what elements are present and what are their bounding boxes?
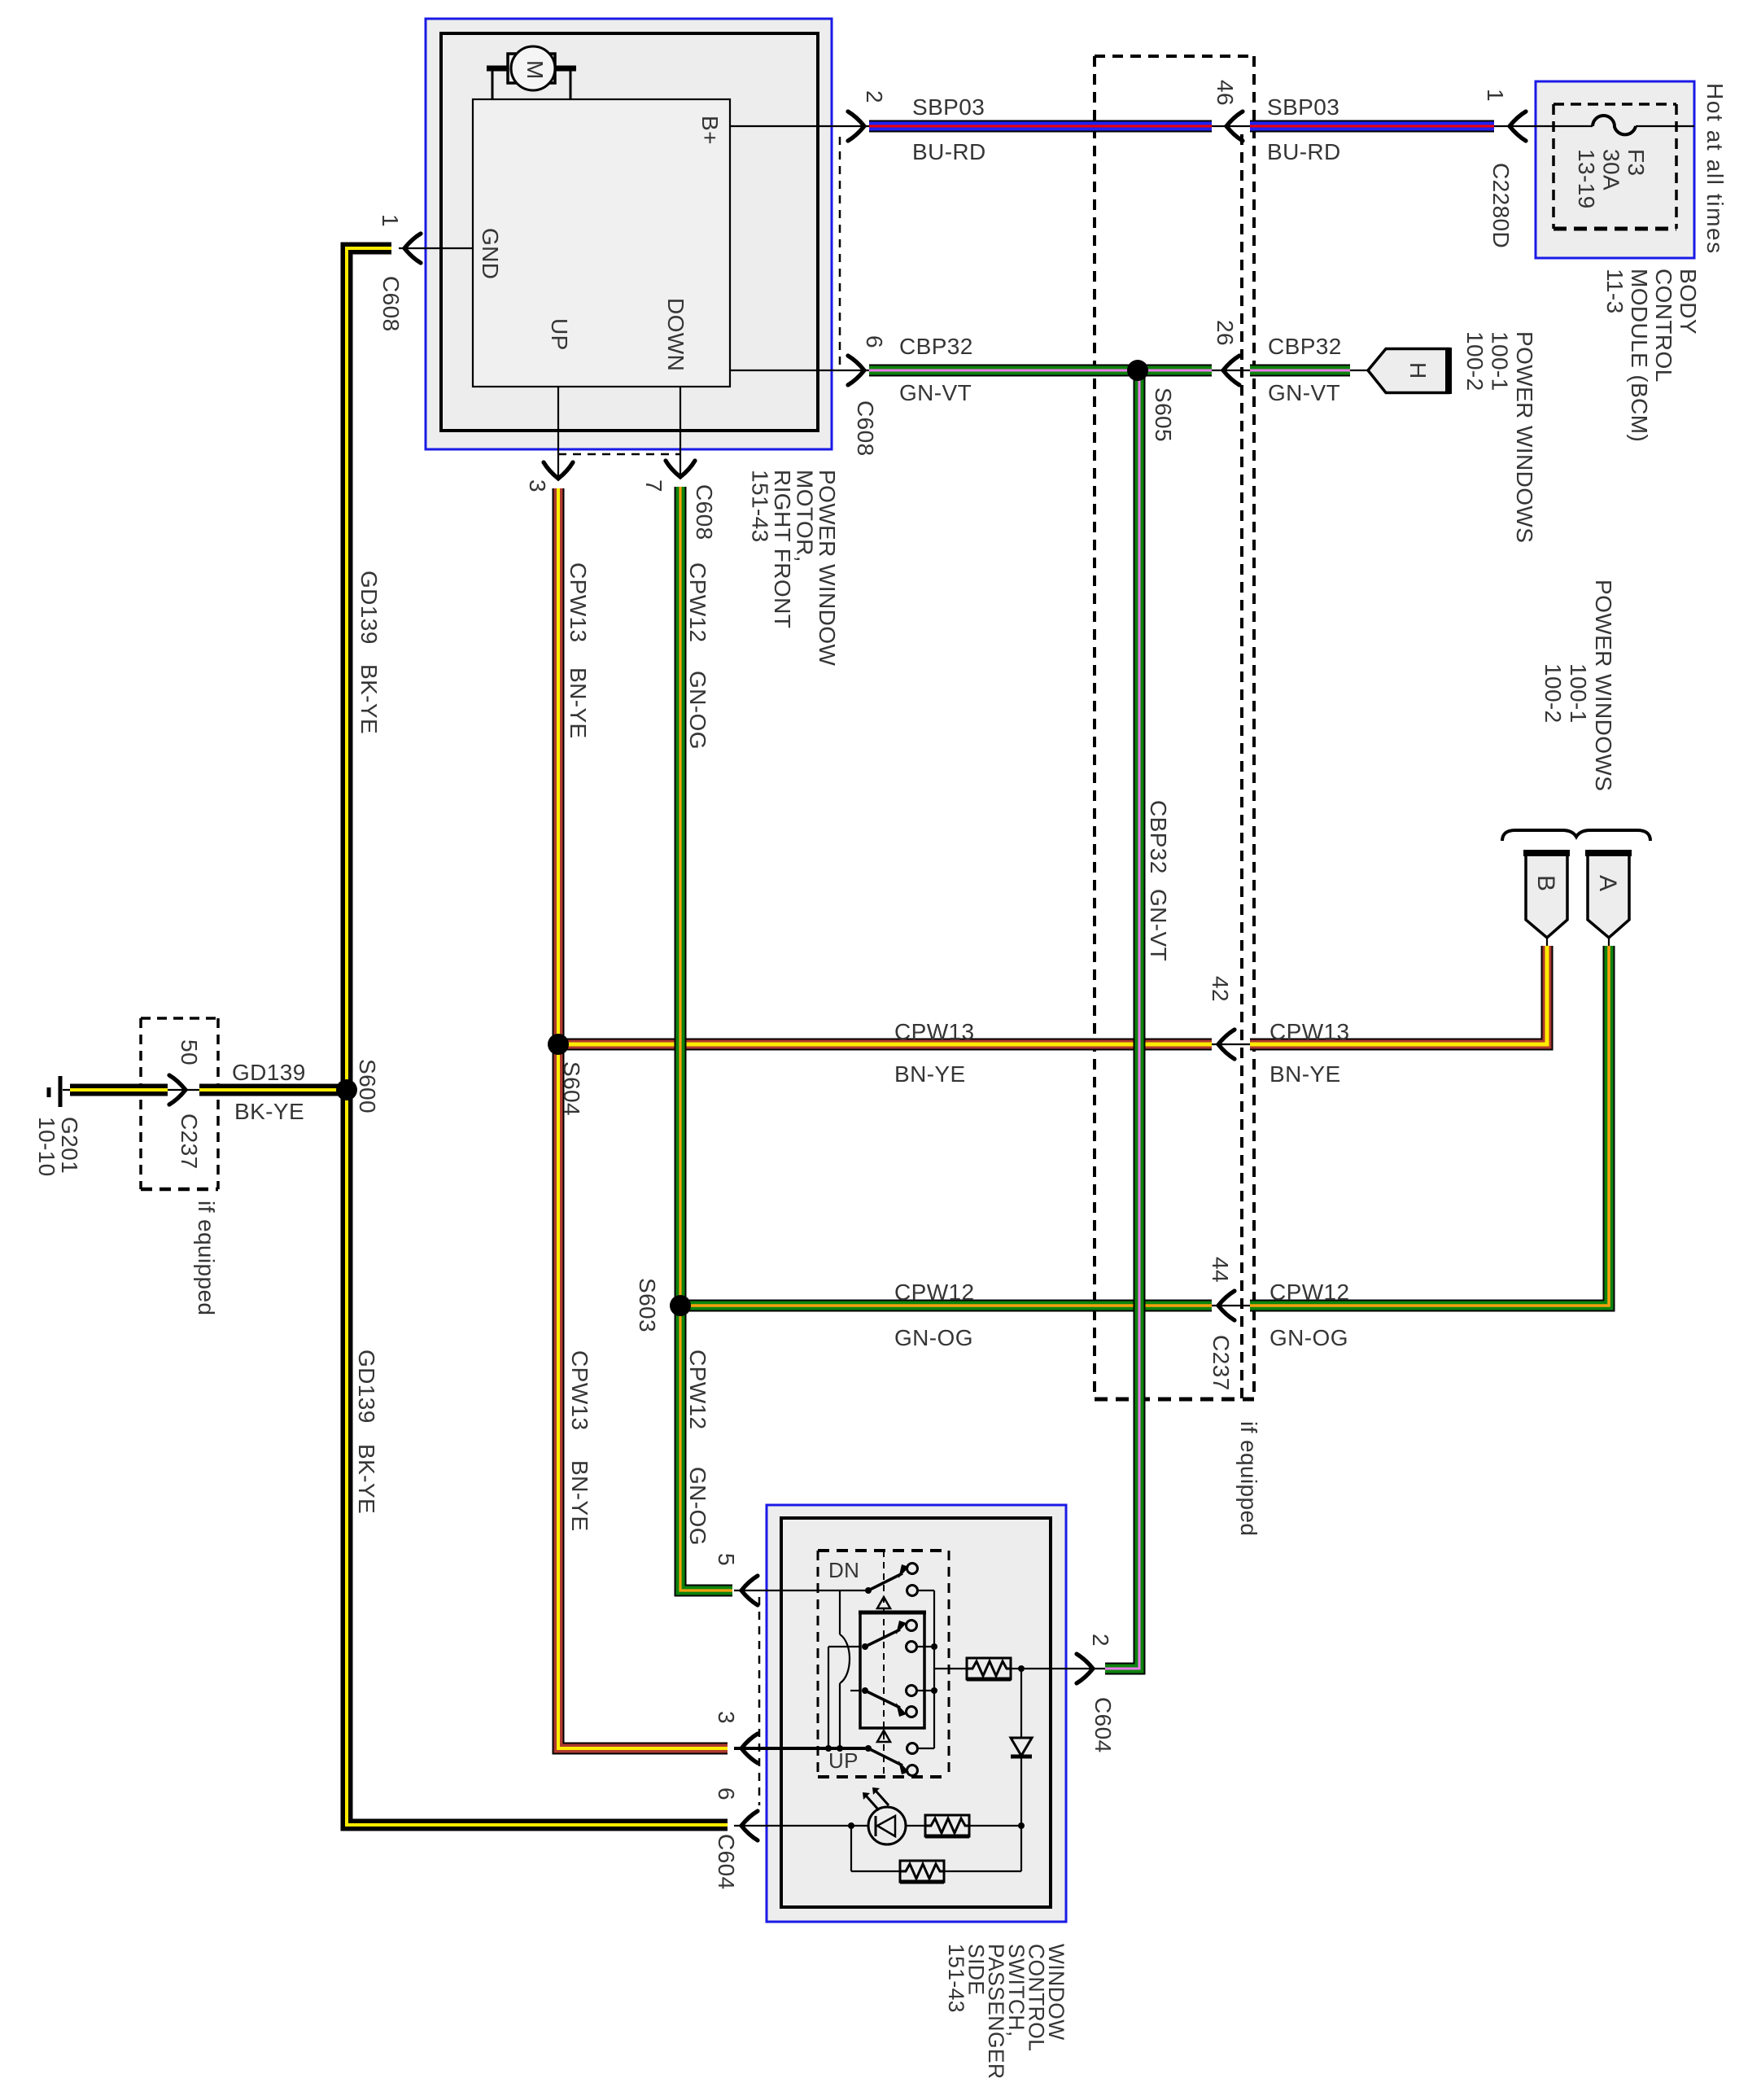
svg-text:SBP03: SBP03 — [912, 94, 985, 120]
svg-text:GN-VT: GN-VT — [1268, 380, 1340, 405]
svg-text:46: 46 — [1213, 80, 1238, 106]
svg-text:GN-VT: GN-VT — [1146, 889, 1171, 961]
svg-text:CPW13: CPW13 — [567, 1350, 592, 1430]
svg-text:A: A — [1594, 875, 1621, 891]
svg-text:13-19: 13-19 — [1574, 149, 1599, 209]
svg-text:BN-YE: BN-YE — [1269, 1061, 1341, 1087]
svg-text:if equipped: if equipped — [194, 1201, 219, 1315]
svg-text:GN-VT: GN-VT — [899, 380, 972, 405]
svg-text:GD139: GD139 — [232, 1060, 306, 1085]
svg-text:5: 5 — [714, 1553, 739, 1566]
svg-text:C237: C237 — [1208, 1335, 1234, 1391]
svg-text:CBP32: CBP32 — [899, 334, 973, 359]
svg-text:UP: UP — [547, 318, 572, 351]
svg-text:CPW12: CPW12 — [894, 1280, 974, 1305]
svg-text:MODULE (BCM): MODULE (BCM) — [1627, 269, 1652, 442]
svg-text:CPW13: CPW13 — [894, 1019, 974, 1044]
svg-text:C608: C608 — [853, 400, 878, 457]
svg-text:BK-YE: BK-YE — [234, 1099, 304, 1124]
svg-text:100-2: 100-2 — [1540, 663, 1566, 724]
svg-text:BN-YE: BN-YE — [567, 1460, 592, 1532]
svg-text:H: H — [1405, 362, 1431, 379]
svg-text:MOTOR,: MOTOR, — [793, 470, 818, 562]
svg-text:30A: 30A — [1599, 149, 1624, 190]
svg-text:1: 1 — [1483, 89, 1508, 102]
svg-text:POWER WINDOW: POWER WINDOW — [815, 470, 840, 666]
svg-text:CBP32: CBP32 — [1268, 334, 1342, 359]
svg-text:151-43: 151-43 — [944, 1944, 968, 2013]
svg-text:C604: C604 — [714, 1834, 739, 1890]
svg-text:1: 1 — [378, 214, 403, 227]
svg-text:GN-OG: GN-OG — [894, 1325, 973, 1350]
svg-text:100-1: 100-1 — [1566, 663, 1591, 724]
svg-text:if equipped: if equipped — [1236, 1421, 1261, 1536]
svg-text:C608: C608 — [692, 484, 717, 540]
svg-text:C608: C608 — [378, 276, 404, 332]
svg-text:M: M — [522, 60, 548, 80]
svg-text:3: 3 — [525, 479, 550, 492]
svg-text:B+: B+ — [697, 116, 723, 145]
svg-text:C237: C237 — [177, 1113, 202, 1170]
svg-text:GN-OG: GN-OG — [685, 671, 710, 750]
svg-text:UP: UP — [828, 1748, 859, 1773]
svg-text:S605: S605 — [1151, 387, 1176, 442]
svg-text:RIGHT FRONT: RIGHT FRONT — [770, 470, 795, 628]
svg-text:CBP32: CBP32 — [1146, 800, 1171, 874]
svg-text:CONTROL: CONTROL — [1651, 269, 1676, 383]
svg-text:BODY: BODY — [1676, 269, 1701, 335]
svg-text:50: 50 — [177, 1039, 202, 1065]
svg-text:BN-YE: BN-YE — [566, 667, 591, 739]
svg-text:100-2: 100-2 — [1462, 331, 1488, 392]
svg-text:6: 6 — [862, 335, 887, 348]
svg-text:3: 3 — [714, 1711, 739, 1724]
svg-text:CPW12: CPW12 — [685, 1350, 710, 1429]
svg-text:42: 42 — [1208, 976, 1233, 1002]
svg-text:7: 7 — [641, 479, 666, 492]
svg-text:BU-RD: BU-RD — [912, 139, 986, 164]
svg-text:26: 26 — [1213, 320, 1238, 346]
svg-text:S600: S600 — [355, 1059, 380, 1113]
svg-text:POWER WINDOWS: POWER WINDOWS — [1591, 580, 1616, 791]
svg-text:10-10: 10-10 — [34, 1117, 59, 1177]
svg-text:GND: GND — [478, 228, 503, 279]
svg-text:BK-YE: BK-YE — [356, 664, 382, 734]
svg-text:DOWN: DOWN — [663, 298, 688, 371]
svg-text:44: 44 — [1208, 1257, 1233, 1283]
svg-text:Hot at all times: Hot at all times — [1702, 83, 1728, 255]
svg-text:2: 2 — [862, 90, 887, 103]
svg-text:S603: S603 — [635, 1278, 660, 1332]
svg-text:11-3: 11-3 — [1602, 269, 1628, 314]
svg-text:BU-RD: BU-RD — [1267, 139, 1341, 164]
svg-text:B: B — [1532, 875, 1559, 891]
svg-text:GN-OG: GN-OG — [685, 1467, 710, 1546]
svg-text:G201: G201 — [57, 1117, 82, 1174]
svg-text:C604: C604 — [1090, 1697, 1116, 1753]
svg-text:BN-YE: BN-YE — [894, 1061, 966, 1087]
svg-text:BK-YE: BK-YE — [354, 1444, 379, 1514]
svg-text:CPW12: CPW12 — [685, 562, 710, 642]
svg-text:CPW12: CPW12 — [1269, 1280, 1349, 1305]
svg-text:F3: F3 — [1623, 149, 1649, 176]
svg-text:S604: S604 — [559, 1061, 584, 1116]
svg-text:151-43: 151-43 — [748, 470, 773, 543]
svg-text:GD139: GD139 — [356, 571, 382, 645]
svg-text:GN-OG: GN-OG — [1269, 1325, 1348, 1350]
svg-text:SBP03: SBP03 — [1267, 94, 1339, 120]
svg-text:POWER WINDOWS: POWER WINDOWS — [1512, 331, 1537, 543]
svg-text:GD139: GD139 — [354, 1350, 379, 1424]
svg-text:C2280D: C2280D — [1488, 163, 1514, 248]
svg-text:2: 2 — [1088, 1634, 1113, 1647]
svg-text:CPW13: CPW13 — [1269, 1019, 1349, 1044]
svg-text:CPW13: CPW13 — [566, 562, 591, 642]
svg-text:100-1: 100-1 — [1488, 331, 1513, 392]
svg-text:DN: DN — [828, 1558, 859, 1582]
svg-text:6: 6 — [714, 1787, 739, 1800]
